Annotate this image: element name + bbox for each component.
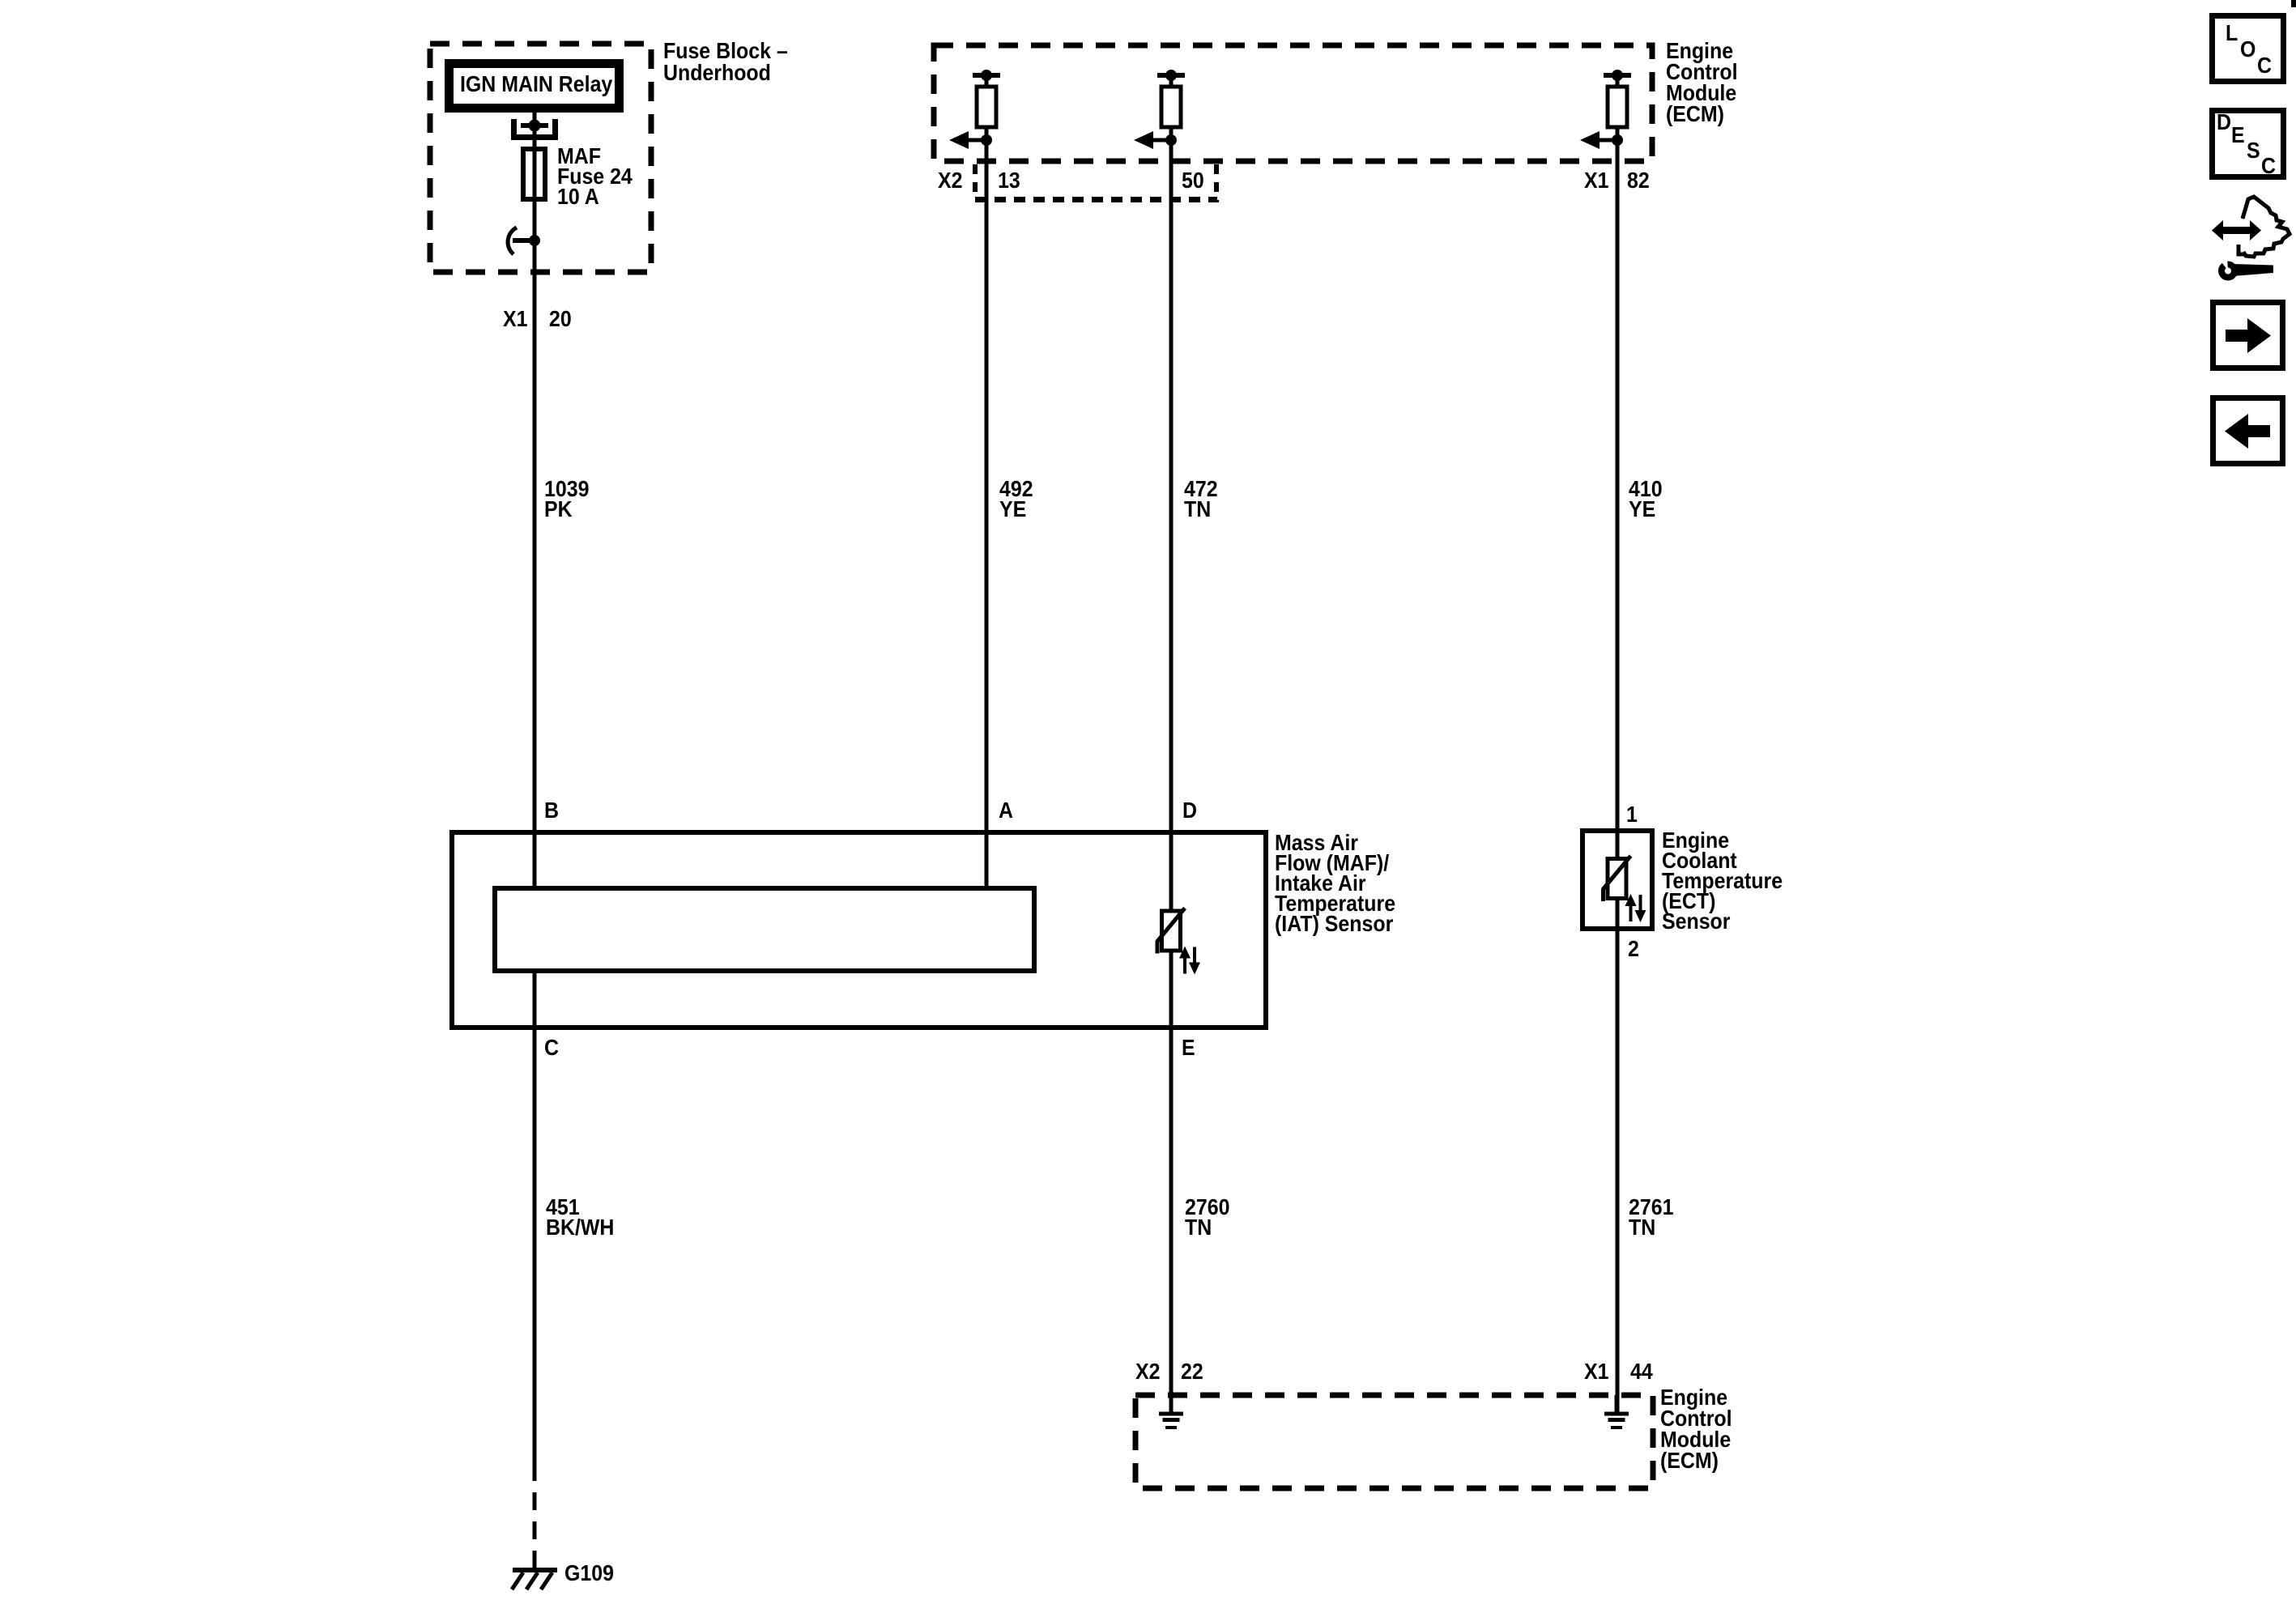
connector X2 dotted box [975,164,1217,202]
svg-text:YE: YE [999,496,1026,522]
svg-text:X1: X1 [503,306,527,332]
connector labels X2 22 X1 44 [1135,1359,1653,1385]
svg-text:TN: TN [1184,496,1211,522]
relay switch contact [508,228,540,254]
wire 451 BK/WH [535,971,614,1481]
svg-text:82: 82 [1627,168,1650,194]
fuse MAF Fuse 24 10 A [523,143,633,240]
svg-text:(IAT) Sensor: (IAT) Sensor [1275,911,1393,937]
svg-text:L: L [2226,20,2238,46]
relay IGN MAIN Relay [449,64,620,109]
wire 410 YE [1617,140,1663,859]
icon LOC box [2213,16,2284,82]
svg-text:X2: X2 [938,168,962,194]
svg-text:Sensor: Sensor [1662,908,1730,934]
MAF/IAT sensor pin labels B A D [544,798,1197,823]
svg-text:20: 20 [549,306,572,332]
svg-text:2: 2 [1628,936,1639,962]
svg-text:TN: TN [1629,1215,1655,1240]
svg-text:A: A [999,798,1013,823]
svg-text:C: C [2257,53,2272,79]
svg-text:22: 22 [1181,1359,1203,1385]
Fuse Block - Underhood dashed box [430,44,651,272]
svg-text:(ECM): (ECM) [1660,1448,1719,1474]
svg-text:13: 13 [998,168,1020,194]
connector X1 pin 20 of fuse block [503,306,572,332]
icon wiring repair (arrow, glove, wrench) [2212,197,2290,278]
svg-text:10 A: 10 A [557,184,599,210]
ECT sensor pin 1 label [1626,802,1638,828]
svg-text:D: D [2217,109,2231,135]
svg-text:C: C [544,1035,559,1061]
icon forward arrow box [2213,303,2283,368]
svg-text:B: B [544,798,559,823]
svg-text:(ECM): (ECM) [1666,101,1724,127]
dashed wire to G109 [533,1492,537,1568]
svg-text:1: 1 [1626,802,1638,828]
wire 472 TN [1171,140,1218,911]
svg-text:Underhood: Underhood [663,60,771,86]
icon DESC box [2213,109,2284,179]
ECT sensor label [1662,828,1783,934]
MAF/IAT sensor box [452,832,1266,1028]
wire 2760 TN [1171,951,1229,1412]
svg-text:X2: X2 [1135,1359,1160,1385]
MAF/IAT sensor label [1275,830,1395,937]
svg-text:44: 44 [1630,1359,1653,1385]
ECM driver pin X1-82 [1580,70,1631,149]
ECM internal ground X1-44 [1604,1395,1629,1428]
ECT sensor box [1582,831,1652,929]
Fuse Block - Underhood label [663,38,788,86]
ECM driver pin X2-50 [1134,70,1185,149]
svg-text:50: 50 [1182,168,1204,194]
svg-text:BK/WH: BK/WH [546,1215,614,1240]
icon back arrow box [2213,398,2283,464]
svg-text:G109: G109 [564,1560,614,1586]
ECT sensor pin 2 label [1628,936,1639,962]
ECM driver pin X2-13 [949,70,1000,149]
svg-text:YE: YE [1629,496,1655,522]
ECM label top [1666,38,1738,127]
svg-text:PK: PK [544,496,573,522]
svg-text:X1: X1 [1584,168,1608,194]
relay output terminal [514,119,556,138]
MAF/IAT thermistor [1157,908,1200,975]
svg-text:IGN MAIN Relay: IGN MAIN Relay [460,71,613,97]
Engine Control Module (ECM) top dashed box [934,45,1652,161]
svg-text:X1: X1 [1584,1359,1608,1385]
svg-text:TN: TN [1185,1215,1212,1240]
ground G109 [512,1560,614,1589]
svg-text:C: C [2261,153,2276,179]
svg-text:O: O [2240,36,2256,62]
svg-text:D: D [1182,798,1197,823]
page corner mark [2291,0,2296,7]
connector labels X2 13 50 X1 82 [938,168,1650,194]
svg-text:S: S [2247,138,2260,164]
svg-text:E: E [1182,1035,1195,1061]
Engine Control Module (ECM) bottom dashed box [1135,1395,1653,1488]
ECM internal ground X2-22 [1159,1395,1183,1428]
svg-text:E: E [2231,122,2245,148]
wire 1039 PK [535,240,589,888]
MAF/IAT sensor pin labels C E [544,1035,1195,1061]
ECT thermistor [1604,856,1646,922]
ECM bottom label [1660,1385,1732,1474]
wire 2761 TN [1617,898,1673,1412]
wire from relay to fuse [533,113,537,147]
wire 492 YE [986,140,1033,888]
